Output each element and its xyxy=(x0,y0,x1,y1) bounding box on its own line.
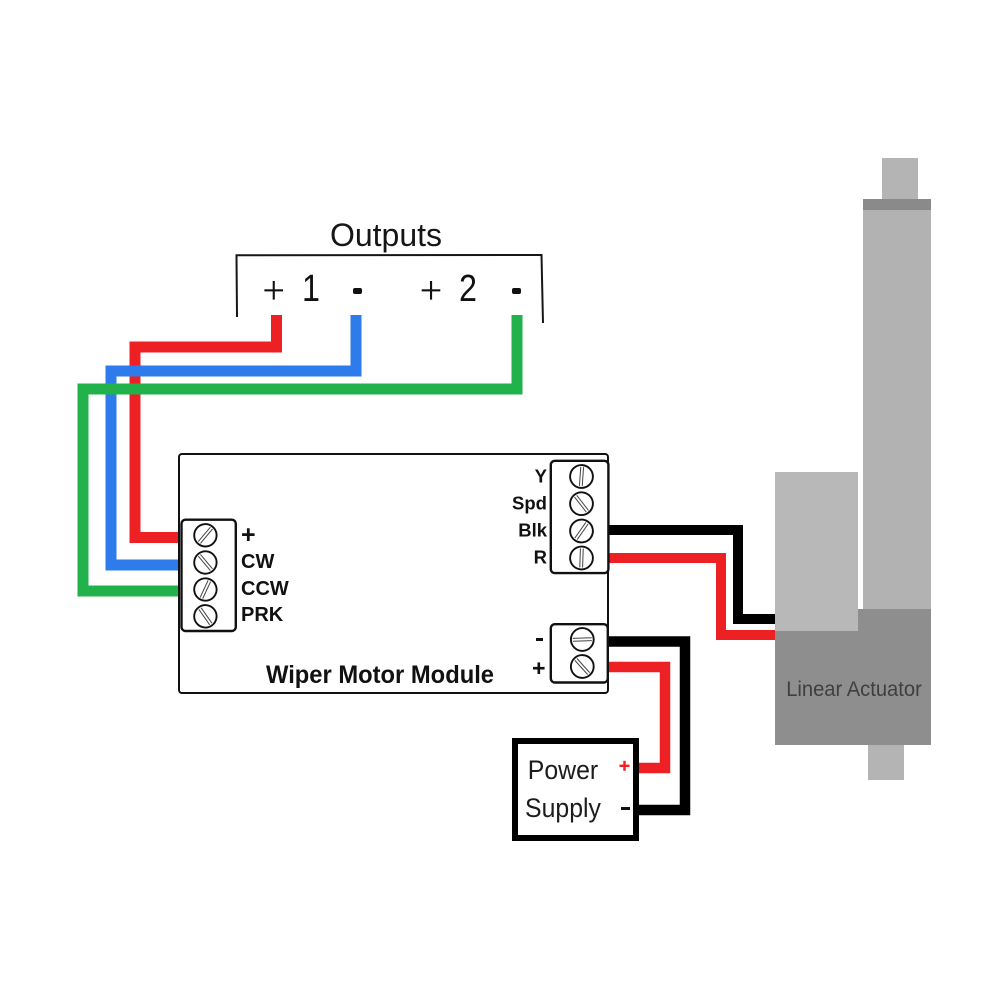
label Outputs xyxy=(330,217,442,254)
module U1 Wiper Motor Module box xyxy=(178,453,609,694)
pin label output1 - xyxy=(353,288,363,295)
pin label - (power supply) xyxy=(621,807,630,810)
label Power xyxy=(528,755,598,786)
pin label Spd xyxy=(512,492,547,514)
pin label output2 2 xyxy=(459,268,477,311)
pin label R xyxy=(534,547,547,569)
linear actuator collar xyxy=(863,199,931,210)
pin label output1 1 xyxy=(302,268,320,311)
linear actuator motor housing xyxy=(775,472,857,631)
linear actuator body dark xyxy=(775,609,930,745)
linear actuator tube xyxy=(863,210,930,610)
label Wiper Motor Module xyxy=(265,661,493,690)
pin label CW xyxy=(241,551,274,574)
pin label PRK xyxy=(241,604,283,627)
pin label + (left block) xyxy=(241,521,256,550)
power supply PS1 box xyxy=(512,738,639,841)
pin label output2 - xyxy=(512,288,522,295)
linear actuator rod tip xyxy=(882,158,918,199)
label Linear Actuator xyxy=(786,678,922,702)
label Supply xyxy=(525,793,601,824)
pin label CCW xyxy=(241,578,289,601)
pin label Blk xyxy=(518,520,547,542)
pin label Y xyxy=(535,465,547,487)
pin label - (lower block) xyxy=(536,638,542,641)
linear actuator bottom tab xyxy=(868,745,903,780)
